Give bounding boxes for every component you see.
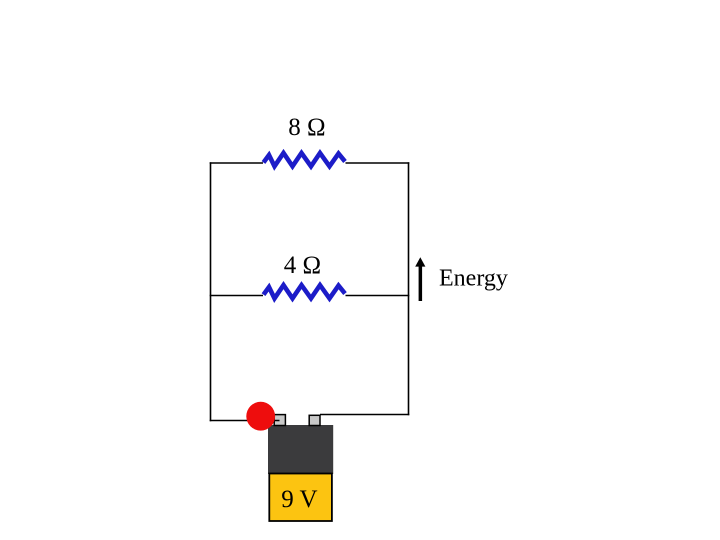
wire: top-right segment from resistor R1	[346, 162, 410, 164]
battery positive terminal (right, gray tab)	[309, 415, 320, 425]
energy arrow head	[415, 257, 425, 266]
svg-text:9 V: 9 V	[281, 486, 317, 513]
battery yellow bottom half with 9V label	[269, 474, 332, 522]
svg-text:Energy: Energy	[439, 266, 508, 292]
wire: middle-left segment to resistor R2	[210, 295, 263, 297]
svg-text:4 Ω: 4 Ω	[284, 252, 321, 279]
wire: top-left segment to resistor R1	[210, 162, 263, 164]
resistor R1 8 ohm zigzag	[264, 153, 346, 166]
energy arrow shaft	[419, 264, 423, 301]
wire: right bottom horizontal to battery positive terminal	[320, 414, 409, 416]
wire: left vertical branch	[210, 162, 212, 421]
svg-text:8 Ω: 8 Ω	[288, 114, 325, 141]
battery negative terminal (left, gray tab)	[274, 415, 285, 426]
battery body dark top half	[269, 426, 333, 474]
resistor R2 4 ohm zigzag	[264, 285, 346, 298]
node A red junction dot	[246, 402, 275, 431]
wire: middle-right segment from resistor R2	[346, 295, 410, 297]
wire: bottom horizontal to node A	[210, 420, 280, 422]
wire: right vertical branch	[408, 162, 410, 415]
